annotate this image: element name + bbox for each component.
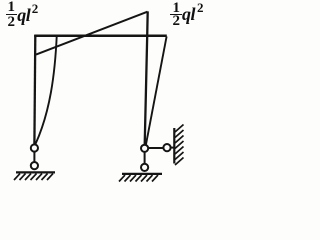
wire right column with moment peak ordinate	[145, 11, 148, 144]
left ground hatching	[14, 174, 53, 180]
right ground line	[122, 173, 162, 175]
wire left column	[33, 35, 36, 144]
right support hinge circle B at wall	[163, 144, 170, 151]
left support hinge circle lower	[31, 162, 38, 169]
wire beam of frame	[34, 34, 167, 37]
wall hatching	[175, 125, 184, 166]
moment diagram beam linear line	[36, 12, 148, 55]
right support vertical link bar	[144, 152, 146, 164]
label 1/2 q l^2 top-right	[170, 1, 182, 16]
right support hinge circle C lower	[141, 164, 148, 171]
left ground line	[16, 171, 55, 173]
left support hinge circle upper	[31, 144, 38, 151]
right ground hatching	[119, 175, 158, 181]
right support hinge circle A on column	[141, 145, 148, 152]
right horizontal link bar to wall	[148, 147, 163, 149]
moment diagram left column parabola	[36, 35, 57, 145]
wall line	[173, 128, 175, 164]
left support link bar	[33, 152, 35, 162]
wall link stub	[171, 147, 174, 149]
label 1/2 q l^2 top-left	[5, 0, 17, 15]
moment diagram right column closing line	[146, 36, 167, 144]
